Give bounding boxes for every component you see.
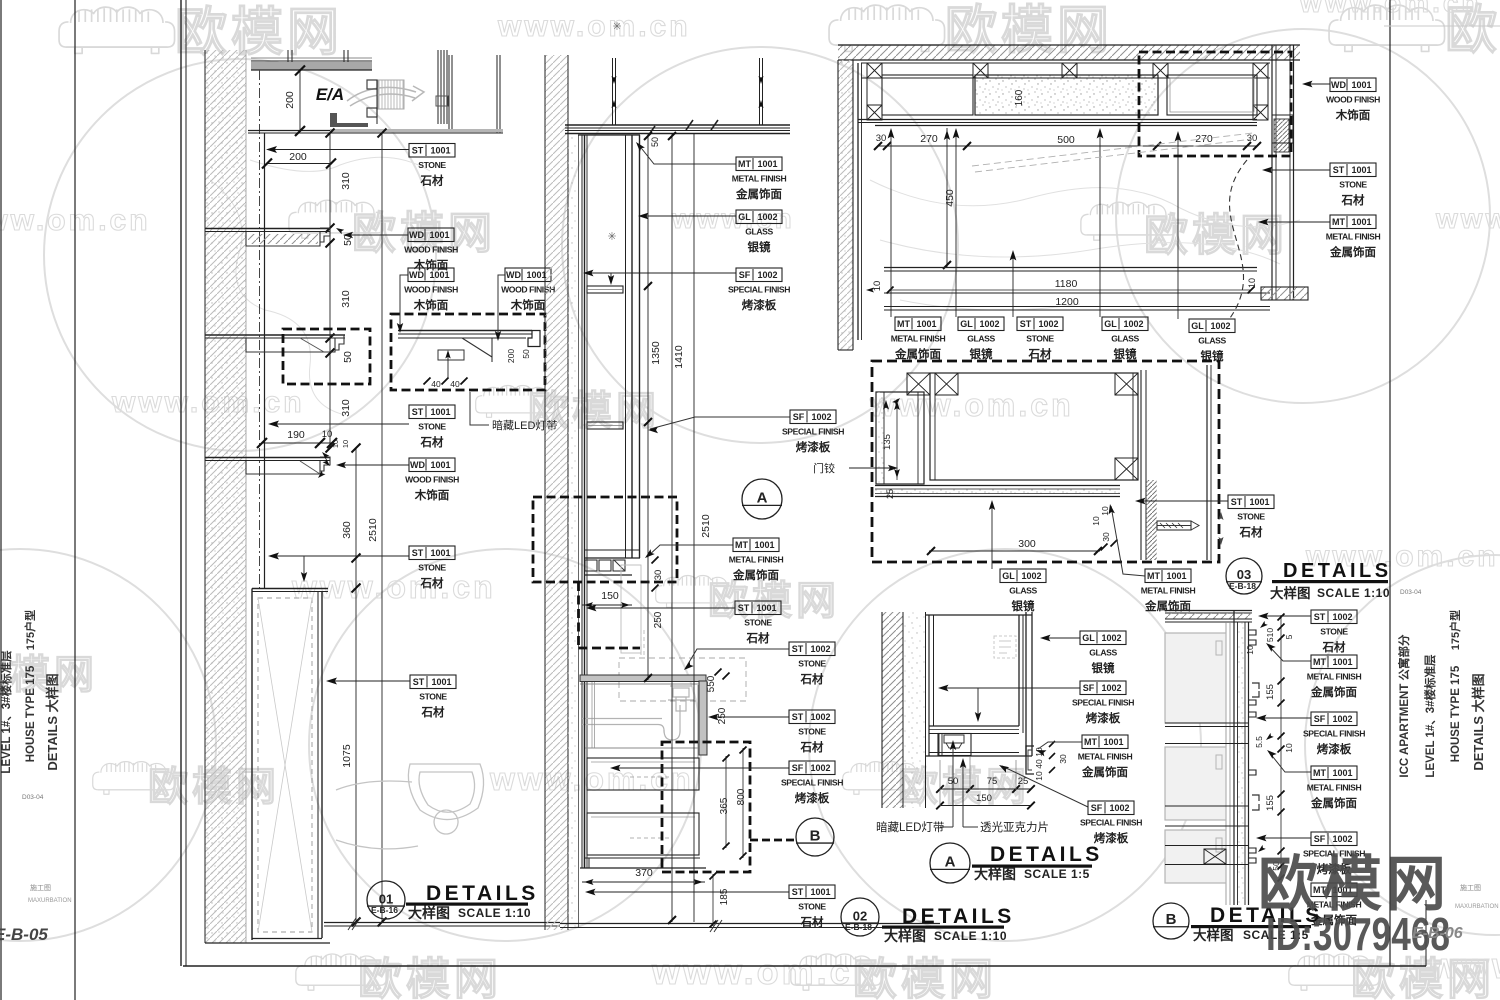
svg-text:30: 30	[1101, 532, 1111, 542]
svg-text:40: 40	[431, 379, 441, 389]
svg-text:1001: 1001	[430, 146, 450, 156]
svg-text:大样图: 大样图	[1270, 585, 1311, 601]
svg-text:250: 250	[653, 611, 664, 628]
svg-text:木饰面: 木饰面	[414, 488, 450, 502]
detail 03 section MT tag	[1111, 506, 1145, 576]
svg-text:1001: 1001	[757, 159, 777, 169]
svg-text:透光亚克力片: 透光亚克力片	[980, 820, 1049, 834]
svg-text:金属饰面: 金属饰面	[1329, 245, 1376, 259]
svg-text:DETAILS: DETAILS	[902, 905, 1015, 928]
svg-text:GLASS: GLASS	[1198, 336, 1226, 346]
svg-text:310: 310	[340, 290, 352, 308]
svg-text:STONE: STONE	[418, 160, 446, 170]
detail B bottom X box	[1204, 849, 1226, 864]
svg-text:GL: GL	[1191, 321, 1204, 331]
svg-text:E-B-16: E-B-16	[371, 905, 398, 915]
svg-text:SPECIAL FINISH: SPECIAL FINISH	[1080, 818, 1142, 828]
svg-text:135: 135	[882, 434, 893, 450]
detail 01 vertical dim chain 310/50	[329, 133, 331, 448]
detail 03 plan left white panel	[882, 75, 973, 115]
svg-text:200: 200	[284, 91, 296, 109]
svg-text:SF: SF	[1314, 834, 1326, 844]
detail 01 toilet underlay	[336, 764, 484, 849]
svg-text:LEVEL 1#、3#楼标准层: LEVEL 1#、3#楼标准层	[1423, 654, 1437, 778]
detail B top bar	[1165, 610, 1252, 612]
svg-text:1350: 1350	[650, 341, 662, 365]
svg-text:METAL FINISH: METAL FINISH	[729, 555, 784, 565]
svg-text:1001: 1001	[1351, 165, 1371, 175]
detail 03 section left column	[876, 392, 924, 484]
detail 01 escalator steps	[378, 80, 404, 109]
svg-text:石材: 石材	[800, 672, 824, 686]
detail 01 title	[367, 881, 405, 919]
detail 01 tag leaders	[268, 149, 409, 151]
svg-text:STONE: STONE	[798, 902, 826, 912]
detail 03 section dim 135	[896, 399, 898, 480]
svg-text:ST: ST	[792, 887, 804, 897]
detail 03 section door panel	[930, 373, 1138, 480]
svg-text:WD: WD	[410, 460, 425, 470]
svg-text:MT: MT	[1313, 768, 1326, 778]
detail 01 door jamb sections	[330, 113, 368, 127]
svg-text:B: B	[1166, 911, 1177, 928]
svg-text:200: 200	[289, 151, 307, 163]
svg-text:SPECIAL FINISH: SPECIAL FINISH	[781, 778, 843, 788]
detail 01 dim 190/10	[262, 442, 332, 444]
svg-text:10: 10	[341, 440, 350, 448]
svg-text:ST: ST	[412, 407, 424, 417]
svg-text:DETAILS 大样图: DETAILS 大样图	[1471, 673, 1486, 770]
detail 01 ceiling slab	[251, 62, 372, 70]
detail B dim line	[1280, 615, 1282, 880]
svg-text:10: 10	[331, 440, 340, 448]
svg-text:A: A	[945, 854, 956, 871]
svg-text:银镜: 银镜	[1012, 599, 1035, 613]
svg-text:1002: 1002	[810, 712, 830, 722]
svg-text:金属饰面: 金属饰面	[894, 347, 941, 361]
detail 03 plan wood panel	[1167, 75, 1257, 115]
svg-text:DETAILS: DETAILS	[990, 843, 1103, 866]
svg-text:GLASS: GLASS	[1009, 586, 1037, 596]
detail 03 plan right wall column	[1271, 45, 1273, 300]
svg-text:METAL FINISH: METAL FINISH	[1078, 752, 1133, 762]
svg-text:1001: 1001	[1351, 80, 1371, 90]
svg-text:烤漆板: 烤漆板	[796, 440, 831, 454]
detail 02 shelf 1	[587, 286, 623, 293]
svg-text:E-B-05: E-B-05	[0, 925, 48, 944]
detail 01 upper room floor line	[248, 130, 503, 132]
detail A lit shelf	[929, 725, 1019, 727]
svg-text:190: 190	[287, 429, 305, 441]
detail B spine	[1233, 610, 1235, 905]
svg-text:GLASS: GLASS	[967, 334, 995, 344]
material tag SF 1002	[728, 268, 790, 312]
material tag MT 1001	[1078, 735, 1133, 779]
detail 01 LED label	[470, 392, 489, 425]
svg-text:50: 50	[650, 137, 660, 147]
svg-text:石材: 石材	[800, 740, 824, 754]
svg-text:MT: MT	[1147, 571, 1160, 581]
detail 02 upper SF tag	[650, 417, 790, 429]
svg-text:50: 50	[342, 351, 354, 363]
svg-text:MT: MT	[897, 319, 910, 329]
detail A dim chain 50/75/25/150	[940, 788, 1031, 790]
svg-text:365: 365	[719, 797, 730, 814]
svg-text:WD: WD	[409, 270, 424, 280]
svg-text:SF: SF	[1314, 714, 1326, 724]
svg-text:550: 550	[706, 675, 717, 692]
svg-text:✳: ✳	[612, 21, 621, 33]
svg-text:✳: ✳	[607, 231, 616, 243]
detail 02 GL tag	[640, 215, 736, 217]
material tag SF 1002	[1303, 832, 1365, 876]
svg-text:银镜: 银镜	[1092, 661, 1115, 675]
svg-text:石材: 石材	[420, 174, 444, 188]
detail 02 dim 550/250	[706, 675, 717, 692]
svg-text:ST: ST	[1314, 612, 1326, 622]
material tag GL 1002	[958, 317, 1004, 361]
svg-text:METAL FINISH: METAL FINISH	[1141, 586, 1196, 596]
detail 01 dim 200 vertical	[299, 69, 301, 132]
detail 02 bubble B	[796, 818, 834, 856]
svg-text:1002: 1002	[1109, 803, 1129, 813]
svg-text:金属饰面: 金属饰面	[1310, 685, 1357, 699]
detail B tags	[1260, 615, 1311, 617]
svg-text:1002: 1002	[811, 412, 831, 422]
svg-text:1001: 1001	[1332, 657, 1352, 667]
svg-text:SCALE 1:10: SCALE 1:10	[1317, 586, 1390, 600]
svg-text:1002: 1002	[1021, 571, 1041, 581]
svg-text:800: 800	[736, 788, 747, 805]
svg-text:STONE: STONE	[1237, 512, 1265, 522]
svg-text:SF: SF	[1083, 683, 1095, 693]
svg-text:1001: 1001	[754, 540, 774, 550]
svg-text:1001: 1001	[1166, 571, 1186, 581]
detail 03 section right stud w/ anchor	[1140, 370, 1142, 560]
sheet outer light edge top-right	[1384, 25, 1500, 27]
svg-text:ST: ST	[792, 644, 804, 654]
svg-text:WOOD FINISH: WOOD FINISH	[405, 475, 459, 485]
svg-text:GLASS: GLASS	[1089, 648, 1117, 658]
detail 03 plan left wall	[838, 60, 853, 350]
svg-text:ST: ST	[792, 712, 804, 722]
svg-text:150: 150	[976, 793, 992, 804]
svg-text:WOOD FINISH: WOOD FINISH	[404, 245, 458, 255]
detail A GL tag	[1044, 637, 1080, 639]
svg-text:石材: 石材	[1341, 193, 1365, 207]
svg-text:1002: 1002	[1101, 633, 1121, 643]
detail A SF tag upper	[940, 687, 1080, 689]
material tag SF 1002	[1072, 681, 1134, 725]
material tag WD 1001	[1326, 78, 1380, 122]
svg-text:40: 40	[1034, 759, 1044, 769]
material tag GL 1002	[1102, 317, 1148, 361]
svg-text:1001: 1001	[430, 407, 450, 417]
detail 01 dashed callout box 2	[391, 314, 545, 390]
detail 03 section GL tag	[991, 502, 993, 569]
svg-text:500: 500	[1057, 134, 1075, 146]
material tag SF 1002	[781, 761, 843, 805]
svg-text:GL: GL	[738, 212, 751, 222]
svg-text:银镜: 银镜	[970, 347, 993, 361]
detail 01 dashed callout box 1	[283, 329, 370, 384]
svg-text:欧模网: 欧模网	[358, 955, 502, 1000]
material tag WD 1001	[501, 268, 555, 312]
detail 03 plan sloped dashed lines	[972, 133, 1253, 166]
svg-text:METAL FINISH: METAL FINISH	[1326, 232, 1381, 242]
svg-text:1200: 1200	[1055, 296, 1079, 308]
detail 03 section dashed box	[872, 361, 1219, 562]
svg-text:ST: ST	[1231, 497, 1243, 507]
detail 02 dims 365/800	[725, 756, 727, 848]
material tag MT 1001	[1141, 569, 1196, 613]
detail 02 dim 250 (niche)	[653, 611, 664, 628]
svg-text:250: 250	[717, 707, 728, 724]
svg-text:310: 310	[340, 172, 352, 190]
detail 01 dim 200 horizontal	[267, 163, 331, 165]
detail 01 hanger column right	[437, 50, 439, 124]
svg-text:GL: GL	[1002, 571, 1015, 581]
detail 03 section small dims 10/10/30	[1100, 506, 1110, 516]
detail 02 counter top	[580, 675, 706, 682]
detail B door panels (light)	[1165, 633, 1226, 723]
material tag ST 1002	[789, 642, 835, 686]
svg-text:1001: 1001	[810, 887, 830, 897]
svg-text:MAXURBATION: MAXURBATION	[28, 898, 72, 904]
svg-text:200: 200	[506, 349, 516, 363]
material tag ST 1001	[409, 144, 455, 188]
svg-text:www.om.cn: www.om.cn	[651, 951, 878, 992]
detail 03 plan right tags	[1304, 83, 1330, 85]
svg-text:银镜: 银镜	[748, 240, 771, 254]
detail 03 plan dim row 30/270/500/270/30	[878, 145, 1257, 147]
material tag MT 1001	[1307, 883, 1362, 927]
svg-text:155: 155	[1265, 684, 1276, 700]
detail B shelves between panels	[1165, 722, 1248, 724]
svg-text:METAL FINISH: METAL FINISH	[891, 334, 946, 344]
svg-text:金属饰面: 金属饰面	[732, 568, 779, 582]
svg-text:1001: 1001	[756, 603, 776, 613]
svg-text:WD: WD	[409, 230, 424, 240]
svg-text:木饰面: 木饰面	[510, 298, 546, 312]
detail 01 wall hatch	[205, 50, 246, 943]
left title strip borders	[0, 0, 2, 1000]
svg-text:1002: 1002	[1210, 321, 1230, 331]
detail 02 dim 150	[582, 604, 632, 606]
detail 03 plan dim 10	[872, 281, 883, 292]
detail 01 wall face lines	[259, 70, 261, 590]
detail 02 bottom ST tag	[587, 891, 789, 893]
detail 02 cabinet verticals	[578, 135, 580, 928]
detail B clips	[1249, 630, 1256, 635]
svg-text:STONE: STONE	[418, 422, 446, 432]
svg-text:370: 370	[635, 867, 653, 879]
material tag GL 1002	[1189, 319, 1235, 363]
svg-text:石材: 石材	[1239, 525, 1263, 539]
detail A SF tag lower	[1002, 766, 1088, 807]
material tag GL 1002	[1000, 569, 1046, 613]
material tag GL 1002	[736, 210, 782, 254]
svg-text:METAL FINISH: METAL FINISH	[1307, 783, 1362, 793]
detail A mirror assembly	[928, 615, 930, 756]
detail 02 floor	[560, 923, 940, 925]
svg-text:METAL FINISH: METAL FINISH	[1307, 672, 1362, 682]
detail 02 dim 30	[653, 570, 664, 581]
svg-text:510: 510	[1265, 628, 1275, 642]
svg-text:SF: SF	[793, 412, 805, 422]
svg-text:1001: 1001	[1249, 497, 1269, 507]
svg-text:DETAILS: DETAILS	[426, 882, 539, 905]
svg-text:MT: MT	[1313, 657, 1326, 667]
svg-text:www: www	[1435, 203, 1500, 234]
svg-text:GL: GL	[1082, 633, 1095, 643]
detail B left gap lines	[1225, 622, 1227, 905]
detail 03 section dim 300	[929, 550, 1100, 552]
material tag GL 1002	[1080, 631, 1126, 675]
detail 01 shelf S3	[205, 457, 330, 459]
svg-text:1001: 1001	[430, 548, 450, 558]
svg-text:STONE: STONE	[419, 692, 447, 702]
svg-text:1001: 1001	[429, 230, 449, 240]
svg-text:10: 10	[1091, 516, 1101, 526]
svg-text:E-B-06: E-B-06	[1412, 925, 1463, 942]
svg-text:施工图: 施工图	[30, 883, 51, 892]
detail 02 base cabinet	[584, 685, 586, 868]
svg-text:欧模网: 欧模网	[175, 4, 343, 62]
detail B brackets	[1252, 683, 1259, 697]
svg-text:2510: 2510	[700, 514, 712, 538]
detail 01 swoosh arrow	[347, 86, 424, 106]
svg-text:10: 10	[322, 429, 333, 440]
svg-text:石材: 石材	[420, 435, 444, 449]
svg-text:大样图: 大样图	[974, 866, 1016, 882]
svg-text:ST: ST	[1020, 319, 1032, 329]
svg-text:石材: 石材	[800, 915, 824, 929]
detail 01 box2 shelf profile	[398, 330, 532, 332]
anchor bolt	[1157, 521, 1191, 530]
detail 02 dim 185	[712, 874, 714, 926]
svg-text:DETAILS 大样图: DETAILS 大样图	[45, 673, 60, 770]
svg-text:ST: ST	[413, 677, 425, 687]
detail A wall hatch	[882, 612, 903, 808]
svg-text:石材: 石材	[746, 631, 770, 645]
svg-text:WD: WD	[1331, 80, 1346, 90]
svg-text:STONE: STONE	[744, 618, 772, 628]
svg-text:1002: 1002	[757, 212, 777, 222]
svg-text:10: 10	[1247, 278, 1257, 288]
svg-text:石材: 石材	[1322, 640, 1346, 654]
svg-text:门铰: 门铰	[813, 461, 835, 475]
detail 01 vertical dim chain 360/1075	[355, 448, 357, 922]
detail 02 dashed callout B	[662, 742, 750, 872]
svg-text:STONE: STONE	[1026, 334, 1054, 344]
detail 03 plan dim 450	[946, 128, 948, 267]
svg-text:30: 30	[1058, 754, 1068, 764]
svg-text:GLASS: GLASS	[745, 227, 773, 237]
svg-text:STONE: STONE	[1320, 627, 1348, 637]
material tag ST 1002	[1017, 317, 1063, 361]
svg-text:D03-04: D03-04	[1400, 589, 1422, 596]
acrylic panel	[925, 755, 1032, 757]
svg-text:暗藏LED灯带: 暗藏LED灯带	[876, 820, 944, 834]
detail 01 floor line	[324, 922, 560, 924]
svg-text:烤漆板: 烤漆板	[1317, 742, 1352, 756]
svg-text:STONE: STONE	[798, 727, 826, 737]
detail 02 ST 1002 tag lower	[710, 716, 789, 718]
svg-text:450: 450	[944, 189, 956, 207]
svg-text:SF: SF	[1091, 803, 1103, 813]
svg-text:10: 10	[1245, 645, 1255, 655]
material tag SF 1002	[1303, 712, 1365, 756]
svg-text:大样图: 大样图	[408, 905, 450, 921]
detail 03 plan wall sill	[1261, 287, 1308, 300]
svg-text:SCALE 1:10: SCALE 1:10	[934, 929, 1007, 943]
svg-text:HOUSE TYPE 175: HOUSE TYPE 175	[25, 665, 37, 762]
svg-text:1002: 1002	[979, 319, 999, 329]
svg-text:1001: 1001	[1103, 737, 1123, 747]
material tag ST 1001	[410, 675, 456, 719]
svg-text:石材: 石材	[420, 576, 444, 590]
svg-text:300: 300	[1018, 538, 1036, 550]
detail 02 SF tag	[612, 767, 789, 769]
detail A MT tag	[1038, 742, 1082, 749]
material tag WD 1001	[405, 458, 459, 502]
svg-text:10: 10	[1034, 771, 1044, 781]
svg-text:SCALE 1:10: SCALE 1:10	[458, 906, 531, 920]
detail 02 ceiling band	[565, 124, 790, 126]
detail 03 plan face lines	[858, 119, 1257, 121]
svg-text:1001: 1001	[430, 460, 450, 470]
material tag MT 1001	[1307, 655, 1362, 699]
svg-text:ST: ST	[412, 146, 424, 156]
detail 02 upper cabinet bottom / kick	[584, 549, 640, 551]
svg-text:1002: 1002	[1101, 683, 1121, 693]
svg-text:1075: 1075	[341, 744, 353, 768]
svg-text:www.om.cn: www.om.cn	[497, 10, 691, 43]
detail 03 section ST tag right	[1137, 500, 1228, 502]
detail 01 base cabinet	[252, 588, 328, 590]
svg-text:ST: ST	[412, 548, 424, 558]
detail 03 title	[1226, 558, 1262, 594]
svg-text:1002: 1002	[1123, 319, 1143, 329]
svg-text:金属饰面: 金属饰面	[735, 187, 782, 201]
detail 03 plan stone speckle panel	[975, 75, 1158, 115]
svg-text:MAXURBATION: MAXURBATION	[1455, 904, 1499, 910]
detail 02 title	[841, 898, 879, 936]
svg-text:MT: MT	[738, 159, 751, 169]
svg-text:STONE: STONE	[798, 659, 826, 669]
svg-text:1001: 1001	[526, 270, 546, 280]
detail 01 vertical dim 2510	[381, 133, 383, 922]
right strip vertical titles	[1397, 634, 1411, 778]
detail 03 plan tag leaders up	[890, 130, 892, 317]
material tag MT 1001	[1307, 766, 1362, 810]
svg-text:1001: 1001	[431, 677, 451, 687]
detail 02 shelf 2	[587, 422, 623, 429]
svg-text:LEVEL 1#、3#楼标准层: LEVEL 1#、3#楼标准层	[0, 650, 13, 774]
svg-text:银镜: 银镜	[1114, 347, 1137, 361]
light underlay scribbles	[210, 157, 1300, 415]
svg-text:E-B-18: E-B-18	[1229, 581, 1256, 591]
svg-text:大样图: 大样图	[884, 928, 926, 944]
svg-text:SPECIAL FINISH: SPECIAL FINISH	[1072, 698, 1134, 708]
svg-text:A: A	[757, 490, 768, 507]
svg-text:30: 30	[653, 570, 664, 581]
svg-text:30: 30	[876, 133, 887, 144]
svg-text:1002: 1002	[810, 644, 830, 654]
svg-text:金属饰面: 金属饰面	[1081, 765, 1128, 779]
svg-text:175户型: 175户型	[1448, 610, 1462, 650]
